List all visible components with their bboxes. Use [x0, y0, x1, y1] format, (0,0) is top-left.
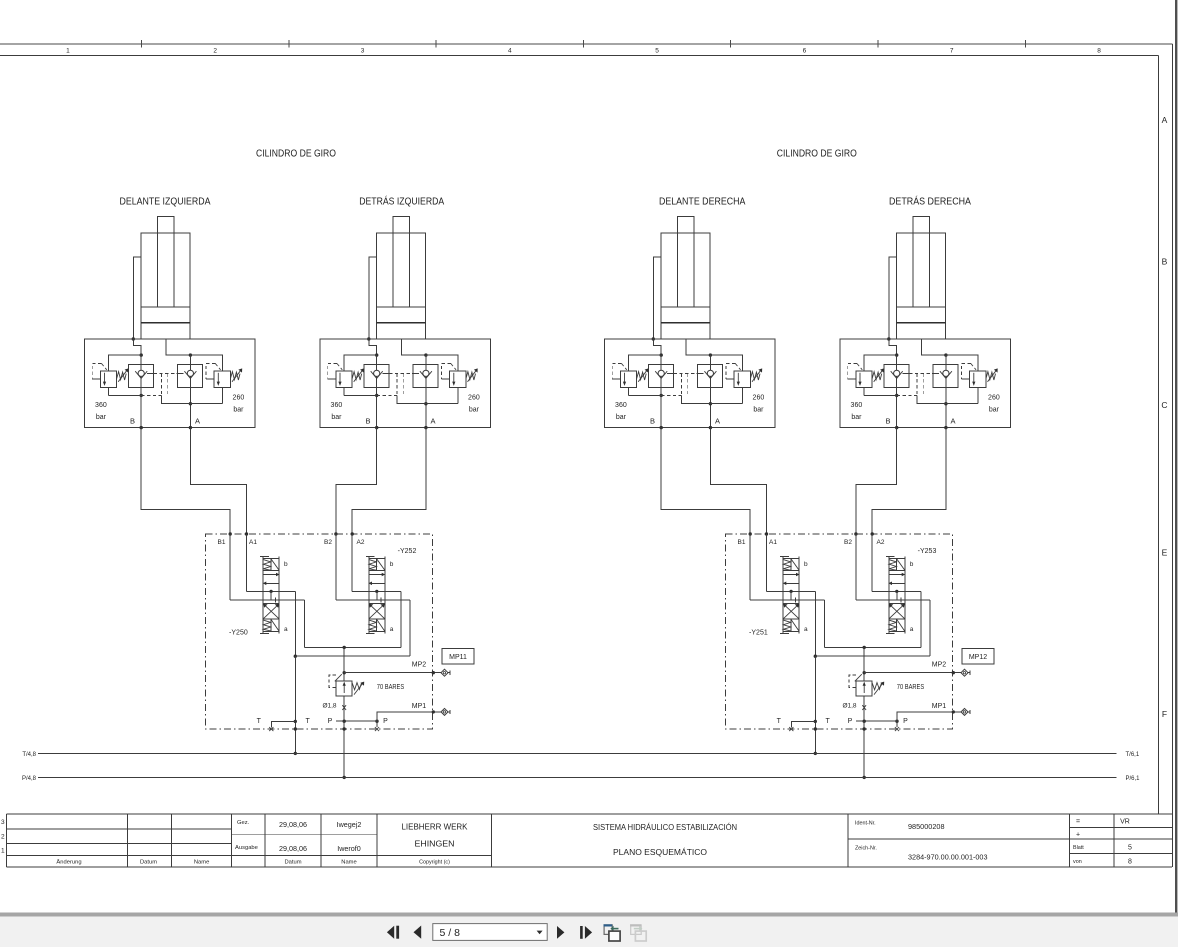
svg-text:EHINGEN: EHINGEN: [415, 840, 455, 849]
svg-text:E: E: [1162, 548, 1168, 558]
svg-text:von: von: [1073, 859, 1082, 865]
last page button: [580, 926, 583, 939]
svg-text:-Y252: -Y252: [398, 548, 417, 555]
svg-text:Iwegej2: Iwegej2: [337, 820, 362, 829]
svg-text:Datum: Datum: [284, 860, 301, 866]
svg-text:P/4,8: P/4,8: [22, 776, 37, 782]
svg-text:Name: Name: [341, 860, 356, 866]
next page button: [557, 926, 564, 939]
svg-text:8: 8: [1097, 47, 1101, 54]
svg-text:B: B: [1162, 257, 1168, 267]
revision table lines: [6, 829, 491, 856]
page outer frame: [1172, 44, 1174, 867]
svg-text:Zeich-Nr.: Zeich-Nr.: [855, 846, 877, 852]
next view icon (disabled): [630, 924, 646, 941]
svg-text:=: =: [1076, 819, 1080, 826]
ruler line: [0, 43, 1173, 45]
svg-text:1: 1: [1, 848, 5, 855]
svg-text:2: 2: [213, 47, 217, 54]
svg-text:1: 1: [66, 47, 70, 54]
svg-text:Änderung: Änderung: [56, 859, 81, 866]
page combo box: [433, 924, 547, 941]
svg-text:P/6,1: P/6,1: [1126, 776, 1141, 782]
right half: cylinders DELANTE/DETRAS DERECHA with control box: [604, 216, 1010, 779]
svg-text:2: 2: [1, 834, 5, 841]
svg-text:PLANO ESQUEMÁTICO: PLANO ESQUEMÁTICO: [613, 848, 707, 857]
tank rail T: [38, 752, 1116, 754]
svg-text:29,08,06: 29,08,06: [279, 844, 307, 853]
title block verticals: [127, 814, 1114, 867]
svg-text:4: 4: [508, 47, 512, 54]
svg-text:Blatt: Blatt: [1073, 845, 1084, 851]
svg-text:Ausgabe: Ausgabe: [235, 845, 258, 851]
svg-text:-Y253: -Y253: [918, 548, 937, 555]
svg-text:Datum: Datum: [140, 860, 157, 866]
toolbar divider: [0, 913, 1178, 917]
svg-text:MP11: MP11: [449, 654, 467, 661]
svg-text:Ident-Nr.: Ident-Nr.: [855, 821, 876, 827]
svg-text:T/4,8: T/4,8: [22, 752, 36, 758]
svg-text:DELANTE DERECHA: DELANTE DERECHA: [659, 196, 746, 208]
svg-text:CILINDRO DE GIRO: CILINDRO DE GIRO: [777, 147, 857, 159]
title block frame: [6, 814, 1172, 867]
svg-text:+: +: [1076, 832, 1080, 839]
svg-text:7: 7: [950, 47, 954, 54]
svg-text:F: F: [1162, 709, 1167, 719]
svg-text:5: 5: [1128, 845, 1132, 852]
svg-text:3: 3: [1, 819, 5, 826]
svg-text:-Y250: -Y250: [229, 630, 248, 637]
svg-text:DELANTE IZQUIERDA: DELANTE IZQUIERDA: [120, 196, 211, 208]
previous page button: [414, 926, 422, 939]
svg-text:6: 6: [803, 47, 807, 54]
svg-text:Copyright (c): Copyright (c): [419, 860, 450, 866]
svg-text:-Y251: -Y251: [749, 630, 768, 637]
svg-text:3: 3: [361, 47, 365, 54]
toolbar background: [0, 917, 1178, 947]
svg-text:3284-970.00.00.001-003: 3284-970.00.00.001-003: [908, 853, 988, 862]
svg-text:985000208: 985000208: [908, 822, 945, 831]
svg-text:8: 8: [1128, 859, 1132, 866]
right section row lines: [848, 827, 1172, 853]
svg-text:VR: VR: [1120, 819, 1130, 826]
ruler ticks: [142, 40, 1026, 47]
svg-text:LIEBHERR WERK: LIEBHERR WERK: [402, 823, 469, 832]
svg-text:T/6,1: T/6,1: [1126, 752, 1140, 758]
svg-text:29,08,06: 29,08,06: [279, 820, 307, 829]
svg-text:A: A: [1162, 115, 1168, 125]
svg-text:C: C: [1161, 400, 1167, 410]
first page button: [387, 926, 394, 939]
svg-text:Gez.: Gez.: [237, 820, 250, 826]
svg-text:5: 5: [655, 47, 659, 54]
svg-text:SISTEMA HIDRÁULICO ESTABILIZAC: SISTEMA HIDRÁULICO ESTABILIZACIÓN: [593, 823, 737, 832]
svg-text:DETRÁS IZQUIERDA: DETRÁS IZQUIERDA: [359, 195, 444, 208]
page inner frame: [0, 56, 1159, 814]
svg-text:CILINDRO DE GIRO: CILINDRO DE GIRO: [256, 147, 336, 159]
left half: cylinders DELANTE/DETRAS IZQUIERDA with control box: [84, 216, 490, 779]
previous view icon: [604, 924, 621, 941]
svg-text:5 / 8: 5 / 8: [440, 927, 461, 939]
svg-text:Name: Name: [194, 860, 209, 866]
pressure rail P: [38, 776, 1116, 778]
window right edge: [1175, 0, 1177, 913]
svg-text:MP12: MP12: [969, 654, 987, 661]
svg-text:Iwerof0: Iwerof0: [337, 844, 361, 853]
svg-text:DETRÁS DERECHA: DETRÁS DERECHA: [889, 195, 971, 208]
